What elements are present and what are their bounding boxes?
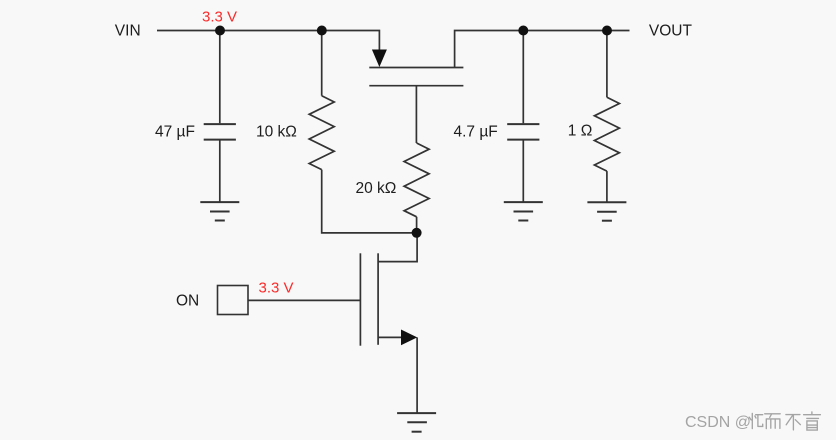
resistor R2 20k zigzag: [404, 143, 429, 217]
watermark glyph mang (busy): [749, 413, 763, 428]
resistor R3 1ohm wires: [606, 31, 608, 98]
svg-text:CSDN @: CSDN @: [685, 414, 751, 431]
arrow Q1 source (down): [372, 50, 387, 68]
junction dot VOUT node C2: [518, 26, 528, 36]
watermark glyph bu (not): [786, 415, 801, 430]
wire Q2 source down to ground: [416, 337, 418, 413]
svg-text:3.3 V: 3.3 V: [259, 280, 294, 297]
ground G2 under C2: [504, 202, 543, 220]
transistor Q1 PMOS channel plate: [369, 67, 463, 69]
watermark glyph mang2 (blind): [804, 412, 821, 430]
resistor R1 10k wires: [321, 31, 323, 96]
arrow Q2 source (right): [401, 330, 417, 346]
svg-text:20 kΩ: 20 kΩ: [356, 180, 397, 197]
transistor Q2 NMOS gate bar: [359, 253, 361, 345]
svg-text:ON: ON: [176, 292, 199, 309]
wire top rail left VIN segment: [157, 31, 379, 51]
transistor Q2 NMOS channel bar: [377, 253, 379, 344]
junction dot R1 top node: [317, 26, 327, 36]
junction dot node A: [412, 228, 422, 238]
svg-text:1 Ω: 1 Ω: [568, 123, 593, 140]
watermark glyph er (and): [765, 414, 781, 429]
svg-text:4.7 µF: 4.7 µF: [454, 124, 498, 141]
wire Q2 drain lead to node A: [378, 233, 417, 262]
terminal box ON: [218, 286, 249, 315]
wire Q2 gate lead from ON box: [248, 299, 360, 301]
svg-text:10 kΩ: 10 kΩ: [256, 124, 297, 141]
ground G4 under Q2: [397, 413, 436, 432]
capacitor C1 47uF vertical wires: [219, 31, 221, 124]
wire R2 bottom to node A: [416, 217, 418, 233]
ground G1 under C1: [200, 202, 239, 220]
resistor R3 1ohm zigzag: [594, 97, 619, 171]
ground G3 under R3: [587, 202, 626, 220]
junction dot VOUT node R3: [602, 26, 612, 36]
junction dot VIN node: [215, 26, 225, 36]
svg-text:3.3 V: 3.3 V: [202, 9, 237, 26]
resistor R1 10k zigzag: [309, 96, 334, 170]
wire Q1 gate stub: [415, 86, 417, 143]
transistor Q1 PMOS gate plate: [369, 85, 463, 87]
svg-text:VIN: VIN: [115, 22, 141, 39]
wire Q2 source lead: [378, 336, 403, 338]
capacitor C1 47uF plates: [204, 123, 236, 125]
wire R1 bottom to node A: [322, 170, 417, 233]
wire top rail right VOUT segment: [455, 31, 630, 68]
svg-text:47 µF: 47 µF: [155, 124, 195, 141]
capacitor C2 4.7uF wires: [522, 31, 524, 124]
svg-text:VOUT: VOUT: [649, 22, 693, 39]
capacitor C2 4.7uF plates: [507, 123, 539, 125]
